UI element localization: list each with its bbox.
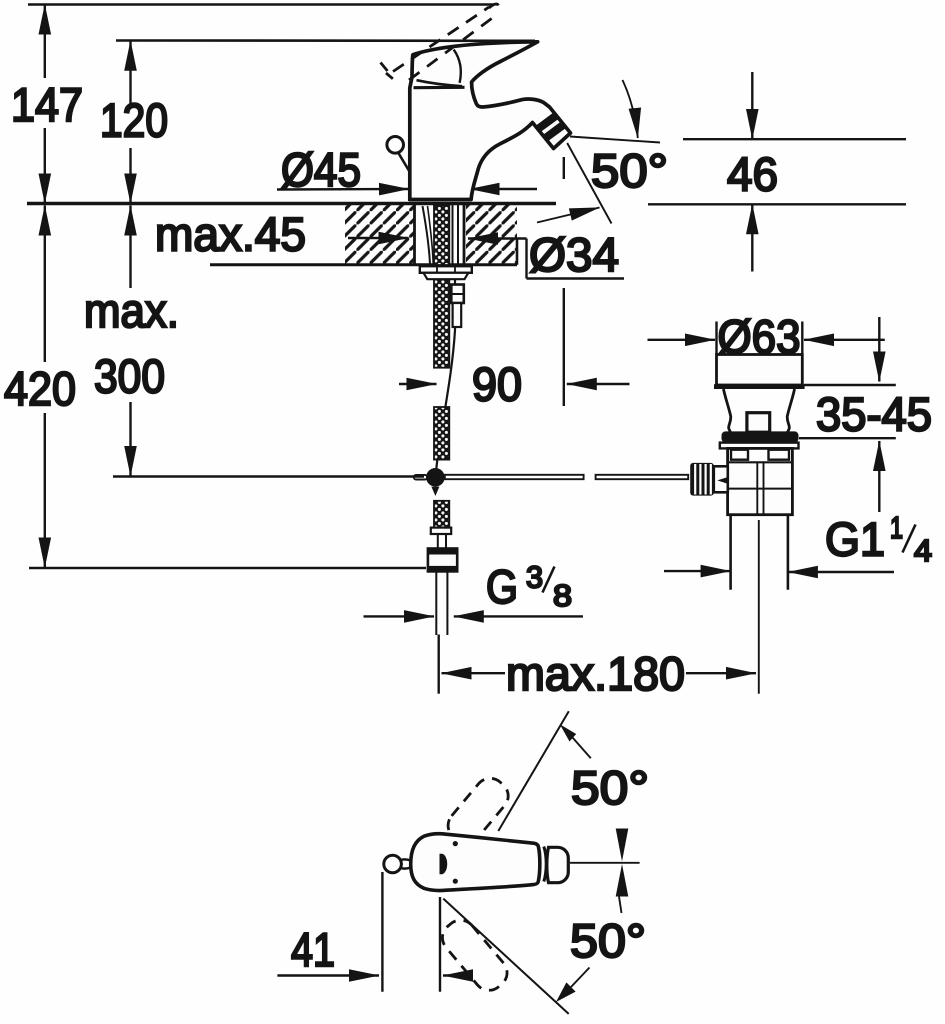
- pop-up rod below deck: [436, 279, 455, 470]
- svg-text:50°: 50°: [570, 914, 646, 967]
- handle raised dashed outline: [381, 4, 500, 81]
- top view: neck ring: [544, 847, 546, 882]
- svg-text:35-45: 35-45: [816, 388, 932, 441]
- svg-text:50°: 50°: [591, 144, 668, 197]
- pop-up rod ring: [387, 137, 404, 154]
- top view: 50 deg upper diagonal line: [498, 711, 569, 831]
- wire 50deg arc arrow (top): [623, 80, 638, 138]
- node deck top surface line: [27, 202, 556, 205]
- dimension 46 vertical with arrows: [648, 72, 906, 272]
- drain washer under seal: [720, 443, 799, 449]
- drain flange: [714, 355, 805, 390]
- hose tube to nut: [437, 534, 439, 549]
- ball joint: [426, 468, 445, 487]
- dimension G1 1/4 arrows: [664, 570, 894, 573]
- svg-text:1: 1: [890, 510, 903, 545]
- svg-text:90: 90: [472, 358, 522, 411]
- svg-text:max.: max.: [84, 284, 179, 337]
- svg-text:G: G: [486, 560, 518, 613]
- PART2: [364, 4, 759, 700]
- drain lift rod hole: [747, 413, 770, 433]
- deck hatch right block: [466, 205, 517, 265]
- dimension max.180: [439, 520, 759, 694]
- braided hose segment D: [434, 501, 449, 528]
- wire level line at 300 (hose ball joint level): [113, 475, 424, 477]
- top view: centerline rod right: [570, 862, 640, 864]
- top view: handle swung up dashed outline: [442, 772, 514, 849]
- linkage rod piece 1: [445, 475, 584, 479]
- wire aerator axis extension line: [567, 143, 611, 224]
- dimension max.300 vertical line with arrows: [129, 206, 131, 477]
- svg-text:300: 300: [94, 350, 165, 403]
- svg-text:4: 4: [914, 533, 932, 568]
- top view: cartridge D mark: [440, 854, 448, 874]
- wire outlet plumb extension line segments x=564: [563, 157, 565, 179]
- drain neck taper: [724, 389, 795, 442]
- top view: pop-up knob circle: [384, 855, 402, 873]
- faucet cartridge joint line: [414, 86, 465, 90]
- hose curve inside shank: [423, 206, 431, 264]
- linkage rod piece 2: [596, 475, 689, 479]
- svg-text:max.180: max.180: [506, 647, 685, 700]
- wire top reference line L1 (handle raised level): [28, 3, 494, 6]
- svg-text:46: 46: [727, 148, 778, 201]
- svg-text:50°: 50°: [571, 761, 649, 814]
- dimension 90 with arrows: [399, 383, 630, 385]
- dimension 120 vertical line with arrows: [129, 41, 131, 204]
- dimension G3/8 arrows: [364, 615, 435, 617]
- faucet dome contour line: [454, 50, 461, 83]
- drain tailpipe walls: [729, 515, 732, 590]
- svg-text:max.45: max.45: [155, 208, 306, 261]
- linkage rod clamp at drain: [714, 466, 728, 492]
- top view: handle width hourglass arrows: [616, 829, 629, 914]
- top view: 50 deg lower leader arrow: [556, 968, 590, 1003]
- svg-text:Ø45: Ø45: [281, 143, 361, 196]
- top view: pivot dots: [453, 841, 458, 846]
- wire level line at 420 (supply pipe end level): [29, 567, 426, 569]
- svg-text:G1: G1: [825, 513, 885, 566]
- linkage knurled knob: [690, 463, 714, 496]
- faucet body outline (side view): [410, 42, 571, 200]
- G3/8 connection nut: [428, 549, 457, 572]
- wire reference line L2 (handle tip level 120): [116, 39, 535, 42]
- svg-text:147: 147: [11, 78, 83, 131]
- braided hose segment C: [434, 407, 449, 460]
- svg-text:3: 3: [526, 560, 543, 595]
- braided hose segment A: [434, 206, 449, 266]
- top view: faucet body outline: [411, 834, 540, 891]
- wire 50deg lower leader arrow: [537, 208, 600, 223]
- svg-text:120: 120: [100, 94, 168, 147]
- faucet shank left wall below deck: [413, 204, 416, 265]
- pop-up rod upper stub: [398, 152, 410, 172]
- drain valve body: [728, 448, 793, 514]
- dimension 35-45 with arrows: [799, 317, 896, 512]
- dimension 41: [277, 872, 473, 992]
- drain rubber seal band: [722, 431, 799, 442]
- deck hatch left block: [345, 205, 415, 264]
- faucet dome lip line: [417, 80, 463, 86]
- dimension Ø63 with arrows: [648, 322, 885, 355]
- svg-text:Ø34: Ø34: [529, 228, 619, 281]
- braided hose segment B: [434, 279, 449, 367]
- supply pipe walls: [435, 572, 437, 635]
- hose end fitting: [431, 528, 451, 534]
- faucet base bottom line: [408, 198, 472, 201]
- wire aerator outlet level line: [570, 137, 660, 143]
- aerator bands: [537, 112, 559, 131]
- mounting nut: [424, 273, 469, 279]
- svg-text:8: 8: [553, 578, 572, 613]
- pop-up rod clamp: [451, 285, 464, 304]
- mounting nut flange washer: [420, 266, 472, 273]
- PART3: [648, 310, 933, 590]
- top view: knob neck: [401, 859, 410, 868]
- pop-up rod wall in shank: [452, 204, 454, 265]
- ball joint cone below: [431, 487, 439, 496]
- node deck bottom surface line: [210, 263, 517, 266]
- svg-text:41: 41: [291, 923, 335, 976]
- top view: handle swung down dashed outline: [436, 914, 513, 996]
- dimension 420 vertical line with arrows: [44, 206, 46, 568]
- dimension 147 vertical line with arrows: [44, 5, 46, 204]
- PART4: [277, 711, 649, 1014]
- dimension Ø45 leader with arrows: [277, 188, 537, 191]
- top view: 50 deg upper leader arrow: [560, 724, 591, 758]
- top view: end cap: [547, 847, 568, 882]
- faucet shank right wall below deck: [463, 204, 466, 265]
- dimension Ø34 leader with arrows: [348, 238, 624, 279]
- svg-text:420: 420: [4, 362, 76, 415]
- top view: 50 deg lower diagonal line: [443, 899, 568, 1014]
- linkage rod left stub: [414, 475, 427, 480]
